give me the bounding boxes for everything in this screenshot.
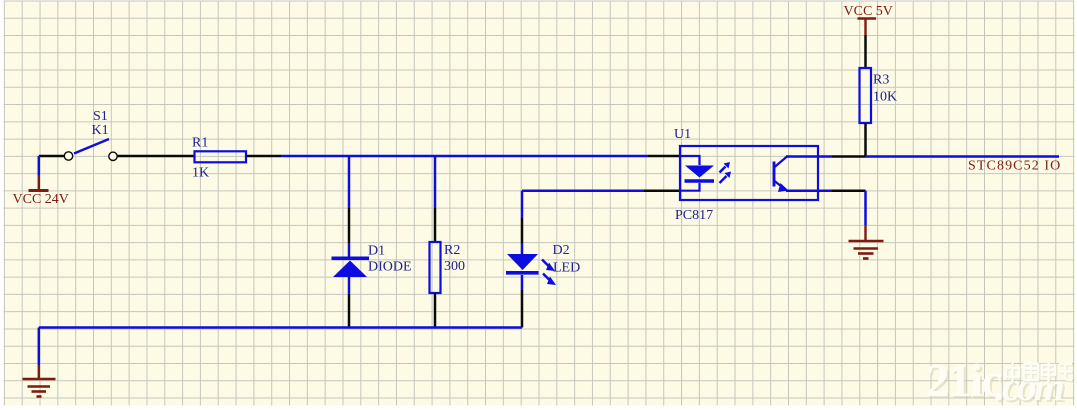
svg-text:D1: D1 [368, 243, 385, 258]
svg-text:VCC 24V: VCC 24V [13, 192, 69, 207]
svg-text:VCC 5V: VCC 5V [844, 4, 893, 19]
ground (bottom left) [23, 365, 56, 397]
watermark 中国电子网 (drawn strokes) [1007, 364, 1077, 383]
LED D2 [506, 243, 580, 290]
resistor R3 10K [860, 68, 898, 123]
wire: bottom ground rail [39, 326, 522, 329]
svg-text:PC817: PC817 [675, 208, 713, 223]
U1 photon arrows [720, 162, 732, 183]
wire: R2 to bottom rail [434, 293, 437, 328]
wire: VCC24V corner to switch S1 left contact [39, 156, 65, 175]
svg-text:STC89C52 IO: STC89C52 IO [968, 159, 1061, 174]
power port VCC 24V [13, 175, 69, 207]
resistor R2 300 [430, 242, 466, 293]
wire: D1 branch vertical [348, 156, 351, 243]
wire: U1 emitter to ground [786, 191, 866, 225]
svg-text:DIODE: DIODE [368, 260, 412, 275]
wire: R1 to node, black then blue main bus to U1 [247, 155, 681, 158]
svg-text:D2: D2 [553, 243, 570, 258]
svg-text:U1: U1 [674, 127, 691, 142]
diode D1 DIODE [332, 243, 412, 294]
watermark 21ic.com [926, 355, 1066, 410]
wire: R3 to junction node [864, 123, 867, 157]
wire: R2 branch vertical [434, 156, 437, 242]
svg-text:10K: 10K [873, 90, 897, 105]
U1 phototransistor [774, 157, 789, 193]
power port VCC 5V [844, 4, 893, 35]
resistor R1 1K [192, 135, 246, 180]
U1 internal LED [681, 156, 714, 191]
optocoupler U1 PC817 [674, 127, 818, 223]
svg-text:300: 300 [444, 259, 465, 274]
svg-text:LED: LED [553, 261, 580, 276]
svg-text:S1: S1 [93, 109, 108, 124]
wire: junction to STC89C52 IO net stub [866, 155, 1060, 158]
wire: switch to R1 [117, 155, 194, 158]
wire: D2 branch from U1 pin2 row [522, 191, 680, 244]
wire: VCC 5V to R3 [864, 35, 867, 68]
wire: D1 to bottom rail [348, 294, 351, 328]
svg-text:R3: R3 [873, 73, 889, 88]
svg-text:K1: K1 [92, 123, 109, 138]
svg-text:21ic: 21ic [926, 355, 1002, 407]
wire: D2 to bottom rail [521, 290, 524, 328]
svg-text:R1: R1 [192, 135, 208, 150]
wire: U1 collector to junction node [786, 155, 866, 158]
ground (right, U1 emitter) [849, 225, 884, 259]
svg-text:R2: R2 [444, 243, 460, 258]
switch S1 / K1 [64, 109, 117, 161]
svg-text:1K: 1K [192, 166, 209, 181]
